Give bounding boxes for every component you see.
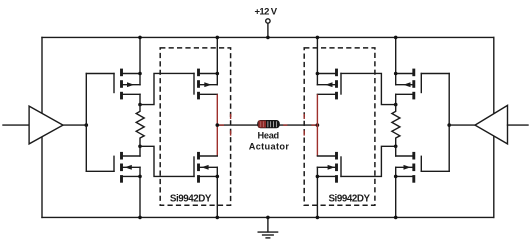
node: Q5 drain-body junction dot (316, 72, 320, 76)
transistor Q7 (top-right MOSFET) (396, 69, 450, 100)
wire: U1 output to left gate bus (63, 124, 86, 126)
wire: Q3 drain to top rail (216, 37, 218, 84)
node: Q1 drain-body junction dot (138, 72, 142, 76)
wire: actuator to right phase (black part) (280, 124, 318, 126)
+12V supply terminal (266, 19, 270, 38)
label Head Actuator (249, 131, 290, 152)
node: Q8 rail dot (394, 216, 398, 220)
node: left phase junction dot (216, 123, 220, 127)
node: left gate bus junction dot (85, 123, 89, 127)
wire: left input (3, 124, 29, 126)
node: Q6 rail dot (316, 216, 320, 220)
wire: red tinted dashes on left box edge near phase wire (230, 114, 232, 136)
wire: Q1 drain to top rail (139, 37, 141, 84)
wire: right outer rail (493, 37, 495, 217)
wire: Q7 source drop (395, 94, 397, 104)
package outline SI9942DY (left dashed box) (160, 48, 230, 205)
node: right phase junction dot (316, 123, 320, 127)
node: +12V junction dot (266, 36, 270, 40)
wire: Q6 source to bottom rail (316, 167, 318, 217)
wire: Q4 source to bottom rail (216, 167, 218, 217)
svg-text:Si9942DY: Si9942DY (328, 194, 370, 205)
wire: right phase node vertical (red) (316, 94, 318, 156)
resistor R1 (left) (136, 105, 144, 147)
node: Q5 rail dot (316, 36, 320, 40)
node: Q2 rail dot (138, 216, 142, 220)
node: right node B bottom dot (394, 145, 398, 149)
node: Q2 source junction dot (138, 175, 142, 179)
node: left node B bottom dot (138, 145, 142, 149)
svg-text:+12 V: +12 V (254, 7, 277, 18)
wire: left node A to Q3 gate (140, 73, 194, 104)
inductor L1 Head Actuator coil (257, 120, 280, 128)
node: ground junction dot (266, 216, 270, 220)
wire: bottom ground rail (42, 216, 494, 218)
transistor Q1 (top-left MOSFET) (86, 69, 140, 100)
svg-text:Head: Head (258, 131, 279, 141)
resistor R2 (right) (392, 105, 400, 147)
transistor Q5 (top MOSFET in right SI9942DY) (317, 69, 341, 100)
node: Q6 source junction dot (316, 175, 320, 179)
node: Q3 rail dot (216, 36, 220, 40)
node: Q4 rail dot (216, 216, 220, 220)
svg-text:Si9942DY: Si9942DY (170, 194, 212, 205)
wire: left phase node vertical (red) (216, 94, 218, 156)
wire: Q7 drain to top rail (395, 37, 397, 84)
wire: red tinted dashes on right box edge near phase wire (303, 114, 305, 136)
transistor Q4 (bottom MOSFET in left SI9942DY) (194, 152, 217, 183)
transistor Q2 (bottom-left MOSFET) (86, 152, 140, 183)
node: left node A top dot (138, 103, 142, 107)
node: Q4 source junction dot (216, 175, 220, 179)
wire: left gate bus vertical (85, 74, 87, 172)
node: Q7 rail dot (394, 36, 398, 40)
node: Q7 drain-body junction dot (394, 72, 398, 76)
wire: Q2 drain riser (139, 146, 141, 156)
buffer amplifier U1 (left) (29, 106, 63, 144)
wire: Q5 drain to top rail (316, 37, 318, 84)
wire: left phase to actuator (black part) (217, 124, 257, 126)
wire: Q1 source drop (139, 94, 141, 104)
svg-text:Actuator: Actuator (249, 141, 290, 151)
wire: Q2 source to bottom rail (139, 167, 141, 217)
wire: Q8 source to bottom rail (395, 167, 397, 217)
wire: right node A to Q5 gate (341, 73, 396, 104)
transistor Q8 (bottom-right MOSFET) (396, 152, 450, 183)
wire: top +12V supply rail (42, 36, 494, 38)
wire: right node B to Q6 gate (341, 146, 396, 176)
transistor Q3 (top MOSFET in left SI9942DY) (194, 69, 217, 100)
wire: left outer rail (41, 37, 43, 217)
wire: red dash right of coil (283, 124, 287, 126)
buffer amplifier U2 (right) (475, 105, 508, 143)
wire: Q8 drain riser (395, 146, 397, 156)
wire: red segment at right phase node (311, 124, 317, 126)
ground (258, 217, 277, 238)
node: Q8 source junction dot (394, 175, 398, 179)
node: Q1 drain rail dot (138, 36, 142, 40)
wire: left node B to Q4 gate (140, 146, 194, 176)
node: right node A top dot (394, 103, 398, 107)
wire: right gate bus vertical (448, 74, 450, 172)
node: right gate bus junction dot (447, 123, 451, 127)
wire: U2 output to right gate bus (449, 124, 475, 126)
transistor Q6 (bottom MOSFET in right SI9942DY) (317, 152, 341, 183)
wire: right input (508, 124, 529, 126)
wire: red segment at left phase node (217, 124, 224, 126)
package outline SI9942DY (right dashed box) (304, 48, 375, 205)
node: Q3 drain-body junction dot (216, 72, 220, 76)
